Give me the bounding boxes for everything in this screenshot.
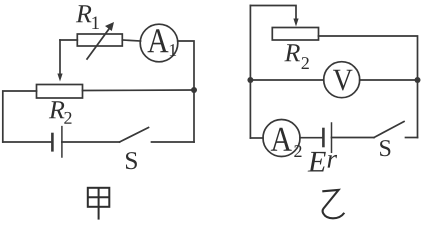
wire: bottom-left corner to ammeter A2	[250, 137, 263, 139]
label 乙 (drawn)	[322, 190, 344, 218]
wire: battery to switch	[62, 141, 120, 143]
node: junction dot right side (left circuit)	[191, 87, 197, 93]
ammeter A2	[263, 120, 300, 157]
resistor R1 (rheostat box)	[77, 34, 122, 46]
rheostat arrow through R1	[87, 22, 114, 59]
wire: top horizontal to wiper	[250, 6, 296, 21]
node: junction dot right (right circuit)	[415, 77, 421, 83]
wire: A1 right to right vertical, down to bottom	[178, 41, 194, 142]
wiper arrowhead onto R2 (left)	[57, 74, 62, 82]
wire: battery to switch (right)	[332, 137, 375, 139]
label A2	[271, 128, 302, 157]
switch S (left circuit)	[120, 128, 149, 143]
wire: R2 right to right vertical, down	[319, 36, 418, 138]
label V	[333, 70, 353, 91]
wire: right circuit top-left vertical	[249, 6, 251, 139]
label S (right)	[380, 140, 390, 156]
switch S (right circuit)	[374, 122, 404, 138]
resistor R2 (rheostat box, right circuit)	[272, 28, 318, 41]
label r	[328, 155, 337, 168]
node: junction dot left (right circuit)	[247, 77, 253, 83]
label R2 (left)	[49, 101, 72, 124]
label 甲 (drawn)	[88, 188, 110, 220]
wire: left circuit top branch, R1 left to corner	[60, 39, 77, 41]
wire: switch right stub	[406, 137, 418, 139]
wire: voltmeter to right vertical	[360, 79, 418, 81]
voltmeter V	[324, 62, 360, 98]
resistor R2 (potentiometer box, left circuit)	[37, 85, 83, 99]
label A1	[147, 29, 176, 56]
label R2 (right)	[284, 44, 308, 69]
wire: R1 right to ammeter A1	[122, 40, 140, 41]
label S (left)	[126, 152, 137, 169]
wire: vertical from corner down to R2 wiper	[59, 40, 61, 75]
battery E r (right circuit cell)	[323, 123, 331, 152]
ammeter A1	[140, 24, 178, 62]
wiper arrowhead onto R2 (right)	[293, 19, 298, 27]
label R1	[76, 5, 99, 29]
wire: R2 right to junction	[83, 89, 195, 92]
wire: middle wire to voltmeter	[250, 79, 323, 81]
label E	[308, 152, 326, 172]
wire: bottom left to battery	[3, 141, 52, 143]
wire: A2 to battery	[300, 137, 323, 139]
battery (left circuit cell)	[52, 127, 62, 157]
wire: R2 left to left vertical, down to bottom	[3, 91, 37, 142]
wire: switch right to right vertical	[152, 141, 195, 143]
